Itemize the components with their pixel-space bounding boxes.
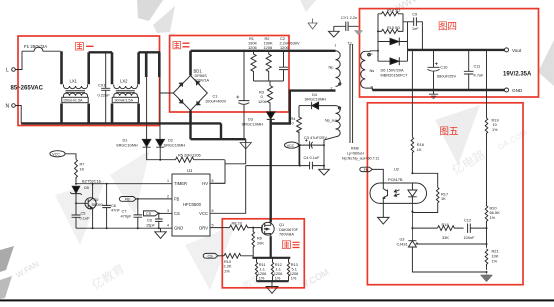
resistor R8 [230, 225, 263, 230]
svg-text:30mH/1.5A: 30mH/1.5A [115, 99, 134, 103]
svg-text:F1 250V/2A: F1 250V/2A [24, 44, 47, 49]
wire R16 feed from Vout rail [411, 50, 413, 137]
CY1 right earth arrow [354, 26, 363, 35]
resistor R7 [75, 159, 78, 183]
svg-text:Np: Np [329, 64, 334, 69]
terminal GND [505, 88, 509, 92]
resistor R2 [266, 51, 271, 81]
svg-text:DRV: DRV [199, 225, 208, 230]
svg-text:1nF: 1nF [412, 27, 419, 31]
opto phototransistor [383, 183, 387, 203]
svg-text:SRGC10MH: SRGC10MH [242, 122, 264, 127]
junction dots box3 [252, 227, 273, 283]
wire FB tag to opto [372, 169, 383, 183]
wire CS to pin3 [158, 212, 172, 214]
wire LED low side down [411, 203, 413, 241]
wire VCC to R7 [65, 154, 76, 160]
DRV pin wire [210, 227, 230, 229]
svg-text:N: N [6, 103, 10, 109]
resistor R21 [485, 249, 488, 270]
capacitor C3 [310, 141, 313, 149]
resistor R20 [485, 206, 488, 248]
svg-text:D5: D5 [84, 185, 89, 190]
resistor R9 [252, 228, 255, 258]
svg-text:FB: FB [364, 168, 369, 172]
zener D5 [72, 186, 80, 193]
bridge diode glyph bottom-left [179, 100, 183, 104]
svg-text:1%: 1% [492, 258, 498, 263]
diode D6b [378, 57, 408, 65]
wire Ns N pin to gnd rail [365, 88, 372, 90]
resistor R4 [297, 106, 302, 133]
svg-text:VCC: VCC [199, 211, 208, 216]
wire bridge top to rail [189, 51, 192, 76]
svg-text:U2: U2 [394, 167, 399, 172]
wire R4 bottom to VCC rail [298, 131, 300, 165]
junction dot D1D2 [159, 159, 161, 161]
gnd arrow U1 [155, 228, 166, 238]
svg-text:8: 8 [212, 179, 214, 183]
wire stub to D1 [146, 77, 148, 139]
wire primary bottom thick [289, 89, 336, 91]
wire D3 junction to R4 [271, 91, 290, 124]
junction dots box4 [377, 30, 470, 91]
svg-text:C9: C9 [412, 12, 417, 16]
svg-text:1%: 1% [275, 276, 281, 281]
wire bottom bus N [21, 122, 221, 124]
svg-text:15pF: 15pF [146, 222, 155, 227]
FB net tag box5 [360, 167, 373, 171]
svg-text:MBR20150FCT: MBR20150FCT [381, 72, 409, 77]
LX1 bottom winding [64, 93, 88, 97]
svg-text:L: L [6, 67, 9, 73]
svg-text:4.7uF: 4.7uF [474, 73, 485, 78]
gnd arrow box3 [266, 281, 278, 293]
svg-text:S8050: S8050 [92, 202, 104, 207]
Vout rail [408, 49, 506, 51]
bridge diode glyph bottom-right [196, 101, 200, 105]
svg-text:C11: C11 [474, 63, 481, 68]
svg-text:1%: 1% [490, 215, 496, 220]
wire stub2 down to bridge ac [160, 77, 173, 139]
svg-text:CS: CS [208, 254, 214, 258]
junction dots U1 area [75, 183, 160, 230]
red figure box 1 [18, 36, 160, 126]
diode D3 [266, 112, 275, 120]
transistor Q2 [85, 198, 96, 209]
svg-text:1K: 1K [80, 167, 85, 172]
svg-text:Vout: Vout [512, 48, 522, 53]
transformer secondary Ns winding [361, 51, 366, 88]
red figure box 5 [367, 103, 523, 285]
bottom border line [0, 299, 554, 301]
labels U1 area [52, 153, 213, 231]
C10 earth bars [429, 90, 438, 98]
CX1 wire [105, 52, 107, 123]
wire bridge bottom to bus [189, 111, 192, 124]
svg-text:4: 4 [167, 223, 169, 227]
gnd bus under U1 [76, 227, 172, 230]
LX2 top winding [114, 85, 138, 89]
svg-text:图五: 图五 [440, 127, 459, 138]
svg-text:Np_aux: Np_aux [325, 119, 338, 123]
svg-text:R18: R18 [442, 222, 449, 227]
cathode vertical [407, 42, 409, 62]
VCC net oval left [50, 151, 65, 157]
capacitor C5 [72, 203, 81, 228]
transformer aux winding [336, 106, 341, 137]
junction dots box5 [411, 49, 487, 273]
wire FB to pin2 [136, 198, 172, 200]
svg-text:BD1: BD1 [194, 69, 203, 74]
VCC rail [299, 144, 325, 146]
terminal N [12, 104, 16, 108]
CS net tag box3 [203, 253, 218, 258]
CX1 plates [101, 88, 110, 90]
LX2 value box [112, 97, 138, 102]
red figure box 2 [170, 36, 289, 113]
resistor R14 [378, 12, 403, 16]
feedback RC run [412, 227, 437, 229]
svg-text:150uH/1.5A: 150uH/1.5A [63, 99, 83, 103]
resistor R19 [485, 118, 488, 206]
resistor R17 [412, 188, 439, 213]
wire CS to R10 [218, 255, 224, 257]
svg-text:SRGC10MH: SRGC10MH [164, 143, 186, 148]
svg-text:Ns: Ns [370, 68, 375, 73]
svg-text:5: 5 [212, 223, 214, 227]
svg-text:TIMER: TIMER [174, 181, 187, 186]
labels section1/2 [6, 36, 301, 109]
opto LED [408, 183, 417, 203]
wire L to fuse [15, 51, 22, 69]
resistor R3 [267, 86, 272, 113]
svg-text:0.1uF: 0.1uF [80, 215, 91, 220]
resistor R1 [251, 51, 256, 81]
svg-text:1206: 1206 [280, 45, 289, 50]
resistor R18 [438, 226, 464, 231]
svg-text:20K: 20K [257, 240, 264, 245]
Q1 source thick [270, 236, 272, 258]
svg-text:1K: 1K [417, 147, 422, 152]
phase circle P [368, 53, 370, 55]
diode D4 [312, 102, 319, 109]
svg-text:C12: C12 [464, 217, 471, 222]
LX2 left pin bars [111, 52, 114, 123]
red figure box 4 [360, 9, 539, 97]
svg-text:1206: 1206 [258, 99, 267, 104]
resistor R15 [378, 29, 403, 33]
snubber right vertical [403, 14, 414, 42]
transistor Q1 mosfet [261, 222, 274, 235]
capacitor C4 [310, 162, 313, 170]
HV pin wire [210, 182, 225, 184]
LX1 left pin bars [60, 51, 63, 123]
phase dot aux [338, 107, 340, 109]
LX2 bottom winding [114, 93, 138, 97]
svg-text:VCC: VCC [52, 153, 60, 157]
LX1 right pin bars [87, 52, 90, 123]
svg-text:SRGC10MH: SRGC10MH [116, 143, 138, 148]
stub bar 2 [158, 52, 161, 77]
resistor R10 [224, 253, 253, 258]
svg-text:19V/2.35A: 19V/2.35A [503, 72, 532, 78]
capacitor CY1 [334, 22, 359, 32]
svg-text:U1: U1 [187, 168, 193, 173]
svg-text:CY1 2.2n: CY1 2.2n [341, 15, 357, 20]
svg-text:100nF: 100nF [464, 235, 476, 240]
labels box3 [208, 221, 299, 281]
sense bottom rail [257, 280, 289, 282]
terminal L [12, 68, 16, 72]
svg-text:700V/8A: 700V/8A [279, 232, 294, 237]
labels mid section [116, 15, 379, 161]
wire VCC branch down [299, 145, 301, 166]
svg-text:Np:Ns:Np_aux=60:7:11: Np:Ns:Np_aux=60:7:11 [342, 157, 379, 161]
wire D1 D2 cathodes to R5 [147, 147, 176, 160]
svg-text:1%: 1% [492, 127, 498, 132]
labels box5 [364, 117, 500, 263]
svg-text:1206: 1206 [264, 45, 273, 50]
svg-text:CS: CS [146, 212, 152, 216]
svg-text:T1: T1 [348, 41, 353, 46]
svg-text:SRGC10MH: SRGC10MH [305, 97, 327, 102]
svg-text:0.22uF: 0.22uF [98, 92, 111, 97]
top rail LX2 to stubs [139, 51, 161, 53]
svg-text:R14 5Ω: R14 5Ω [387, 8, 400, 12]
LX1 top winding [64, 85, 88, 89]
GND rail [372, 89, 505, 91]
junction dots VCC area [299, 144, 325, 167]
svg-text:PC817B: PC817B [388, 177, 403, 182]
diode D1 [142, 139, 151, 147]
wire drain line [270, 119, 272, 222]
LX2 right pin bars [137, 52, 140, 123]
wire divider column [486, 50, 488, 118]
svg-text:C3 47uF/25V: C3 47uF/25V [304, 135, 327, 140]
LX1 core lines [66, 91, 86, 93]
svg-text:47nF: 47nF [111, 208, 120, 213]
stamp 图二 [173, 42, 190, 49]
svg-text:3: 3 [167, 209, 169, 213]
optocoupler U2 body [370, 183, 427, 203]
LX2 core lines [116, 91, 135, 93]
FB net oval [119, 196, 136, 201]
fuse F1 body [22, 47, 61, 51]
wire D4 anode to aux top [319, 105, 336, 107]
svg-text:CS: CS [174, 211, 180, 216]
top rail bar2 to LX2 [89, 51, 112, 53]
bridge BD1 diamond [173, 76, 207, 111]
svg-text:HV: HV [202, 181, 208, 186]
capacitor C7 [134, 199, 143, 228]
svg-text:FB: FB [125, 198, 130, 202]
svg-text:Lp=660uH: Lp=660uH [347, 151, 364, 155]
svg-text:LX1: LX1 [70, 79, 78, 84]
primary gnd bus [191, 138, 246, 140]
primary + top rail [191, 50, 336, 52]
svg-text:1: 1 [167, 179, 169, 183]
IC U1 body [172, 174, 210, 236]
red figure box 3 [222, 219, 304, 288]
resistor R16 [411, 137, 414, 173]
svg-text:CX1: CX1 [98, 82, 106, 87]
svg-text:GND: GND [512, 88, 523, 93]
svg-text:1%: 1% [224, 269, 230, 274]
resistor R11 [255, 258, 257, 281]
capacitor C6 [102, 184, 111, 229]
diode D2 [156, 139, 165, 147]
wire C4 gnd drop [319, 166, 330, 176]
svg-text:VCC: VCC [287, 144, 295, 148]
snubber left vertical [377, 14, 379, 61]
svg-text:33K: 33K [442, 235, 449, 240]
CY1 left gnd arrow [329, 26, 340, 37]
wire N down to bus [15, 106, 21, 124]
wire D5 to base node [75, 194, 77, 203]
floating earth triangle [308, 19, 317, 30]
transformer core lines [350, 44, 353, 143]
svg-text:HFC0500: HFC0500 [183, 202, 202, 207]
svg-text:6: 6 [212, 209, 214, 213]
svg-text:85~265VAC: 85~265VAC [11, 86, 44, 92]
wire U3 ref line [416, 243, 487, 245]
HV stub right [225, 139, 246, 164]
capacitor C8 [155, 213, 163, 228]
svg-text:1%: 1% [259, 276, 265, 281]
svg-text:R15 5Ω: R15 5Ω [387, 26, 400, 30]
wire aux bottom to gnd junction [324, 137, 336, 170]
stamp 图一 [76, 43, 94, 51]
gnd arrow box5 bottom (filled) [481, 272, 493, 282]
capacitor C12 [468, 224, 487, 233]
wire D4 cathode to R4 top [299, 105, 312, 107]
svg-text:BZT52C16: BZT52C16 [82, 178, 101, 183]
U3 CJ431 [408, 241, 418, 247]
terminal Vout [505, 48, 509, 52]
capacitor C1 [243, 51, 245, 139]
VCC net oval [285, 142, 299, 148]
opto emitter gnd [378, 203, 389, 224]
bus step down [191, 123, 222, 139]
capacitor C2 [283, 51, 285, 81]
svg-text:1206: 1206 [248, 45, 257, 50]
diode D6a [378, 38, 408, 46]
source sense rail [253, 257, 290, 259]
clamp bottom wire [254, 81, 284, 86]
resistor R5 [176, 157, 225, 162]
svg-text:RM8: RM8 [351, 146, 359, 150]
svg-text:C4 0.1uF: C4 0.1uF [304, 155, 321, 160]
ground arrow at C1 [240, 139, 251, 149]
svg-text:1K: 1K [441, 196, 446, 201]
labels box4 [381, 8, 533, 93]
svg-text:CJ431: CJ431 [397, 242, 408, 247]
wire VCC pin6 riser [210, 166, 246, 214]
svg-text:R8 20: R8 20 [232, 221, 243, 226]
capacitor C10 [427, 50, 439, 90]
wire Ns P pin [365, 50, 378, 53]
transformer T1 primary Np winding [336, 51, 341, 87]
stub bar L-out [145, 52, 148, 77]
svg-text:GND: GND [174, 225, 183, 230]
svg-text:1%: 1% [291, 276, 297, 281]
svg-text:470pF: 470pF [121, 213, 133, 218]
junction dots on top rail [243, 50, 285, 52]
svg-text:2: 2 [331, 87, 333, 91]
svg-text:图四: 图四 [438, 22, 457, 33]
capacitor C11 [464, 50, 474, 90]
phase dot Ns [368, 54, 370, 56]
svg-text:R5 20K/1206: R5 20K/1206 [178, 153, 201, 158]
svg-text:LX2: LX2 [120, 79, 128, 84]
wire U3 anode down [412, 247, 486, 272]
opto coupling arrows [394, 189, 399, 196]
wire opto LED branch [412, 173, 437, 187]
CS net tag [144, 211, 159, 216]
bridge diode glyph top-right [196, 81, 200, 85]
svg-text:600V/1A: 600V/1A [195, 78, 210, 82]
svg-text:FB: FB [174, 197, 180, 202]
bridge diode glyph top-left [179, 83, 183, 87]
svg-text:1: 1 [335, 44, 337, 48]
LX1 value box [62, 97, 88, 102]
wire C4 rail [246, 165, 324, 167]
wire R5 to HV pin [210, 160, 225, 184]
svg-text:2: 2 [167, 195, 169, 199]
stamp 图三 [282, 241, 299, 249]
svg-text:680uF/25V: 680uF/25V [437, 74, 456, 79]
resistor R13 [287, 258, 289, 281]
svg-text:100uF/400V: 100uF/400V [205, 98, 227, 103]
wire TIMER line [76, 183, 172, 185]
phase dot Np [339, 83, 341, 85]
svg-text:C10: C10 [440, 64, 448, 69]
resistor R12 [271, 258, 273, 281]
capacitor C9 [414, 17, 423, 50]
